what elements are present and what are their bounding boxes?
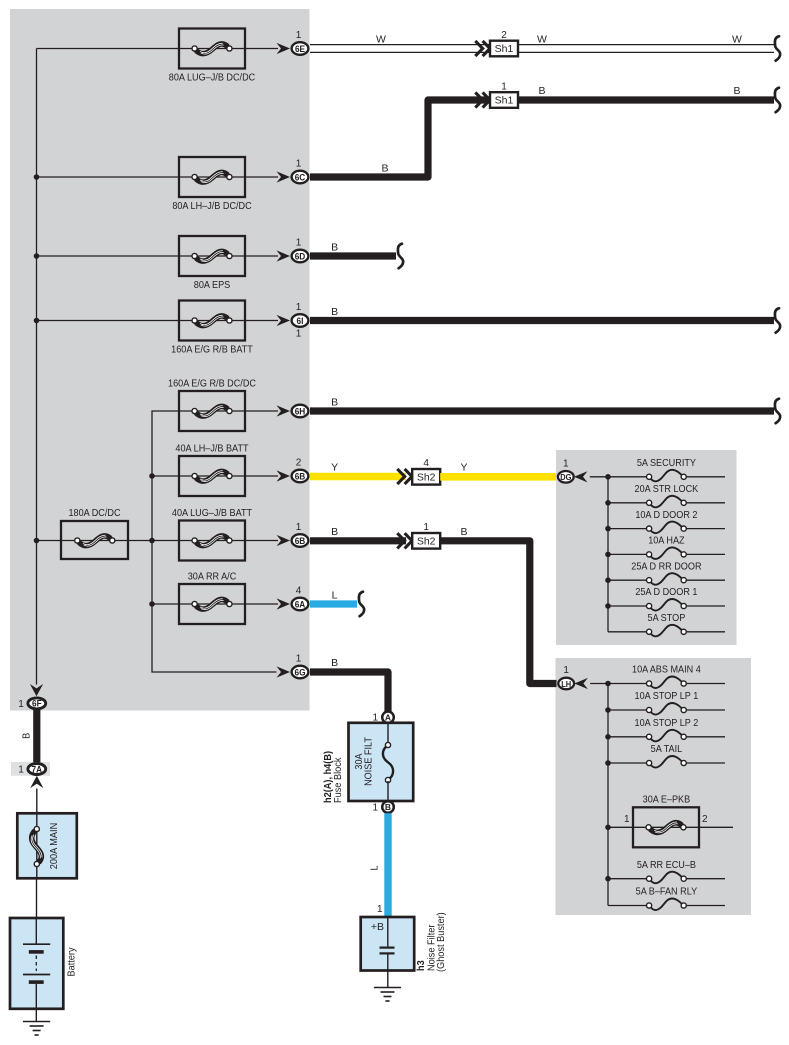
arrow into connector 6H [277, 405, 291, 416]
fuse bus in LH panel [607, 684, 609, 906]
wire to fusible link 80A LUG–J/B DC/DC [37, 48, 180, 50]
shield junction Sh1 pin 1 [490, 81, 518, 107]
connector 6B [292, 534, 309, 547]
svg-text:6A: 6A [295, 599, 306, 609]
svg-text:1: 1 [624, 814, 630, 825]
fuse block NOISE FILT box [349, 723, 414, 801]
svg-text:B: B [460, 526, 467, 538]
svg-text:160A E/G R/B DC/DC: 160A E/G R/B DC/DC [168, 378, 256, 390]
wire L from 6A [310, 600, 357, 607]
fusible link 80A LH–J/B DC/DC [172, 157, 251, 212]
svg-text:25A D RR DOOR: 25A D RR DOOR [631, 561, 701, 573]
arrow into connector DG [574, 471, 588, 482]
svg-text:B: B [21, 732, 33, 739]
connector 6H [292, 405, 309, 418]
break curl on 6H wire [775, 399, 780, 424]
shield junction Sh2 pin 1 [412, 522, 440, 548]
connector 7A [28, 764, 46, 775]
junction node at 10A HAZ [605, 552, 611, 558]
connector 6C [292, 171, 309, 184]
arrow into connector 6B [277, 470, 291, 481]
svg-text:30A RR A/C: 30A RR A/C [188, 571, 237, 583]
svg-text:Sh1: Sh1 [495, 95, 514, 107]
svg-text:7A: 7A [32, 764, 43, 774]
svg-text:1: 1 [296, 159, 302, 170]
svg-text:Sh2: Sh2 [417, 535, 436, 547]
gray tab behind 7A label [11, 762, 50, 776]
svg-text:B: B [538, 85, 545, 97]
fuse 5A STOP [608, 612, 725, 636]
svg-text:1: 1 [296, 302, 302, 313]
svg-text:1: 1 [296, 329, 302, 340]
junction node on main bus at 160A E/G R/B BATT [34, 318, 40, 324]
svg-text:L: L [369, 865, 381, 871]
svg-text:5A STOP: 5A STOP [648, 612, 686, 624]
svg-text:10A STOP LP 2: 10A STOP LP 2 [635, 717, 699, 729]
svg-text:6D: 6D [295, 251, 306, 261]
svg-text:L: L [332, 590, 338, 602]
wire from 40A LH–J/B BATT to connector [245, 475, 278, 477]
break curl on W wire [775, 36, 780, 61]
shield junction Sh2 pin 4 [412, 458, 440, 484]
wire from 30A RR A/C to connector [245, 603, 278, 605]
junction node at 10A STOP LP 1 [605, 707, 611, 713]
svg-text:80A EPS: 80A EPS [194, 279, 231, 291]
right fuse panel (DG) gray background [556, 450, 737, 645]
fuse bus in DG panel [607, 477, 609, 632]
svg-text:6E: 6E [295, 43, 305, 53]
svg-text:LH: LH [561, 679, 571, 689]
wire B from Sh2 to LH [440, 541, 556, 684]
svg-text:1: 1 [296, 30, 302, 41]
ground below battery [23, 1021, 50, 1023]
fusible link 80A EPS [179, 236, 245, 291]
svg-text:(Ghost Buster): (Ghost Buster) [436, 912, 448, 972]
junction node at 5A TAIL [605, 760, 611, 766]
svg-text:6F: 6F [32, 698, 42, 708]
svg-text:B: B [331, 242, 338, 254]
arrow into connector LH [574, 678, 588, 689]
junction node at 25A D DOOR 1 [605, 603, 611, 609]
wire B from 6B pin 1 to Sh2 [310, 537, 406, 544]
wire from 80A EPS to connector [245, 255, 278, 257]
junction node on sub bus at 40A LH–J/B BATT [149, 473, 155, 479]
svg-text:B: B [331, 657, 338, 669]
connector 6I [292, 314, 309, 327]
connector 6E [292, 42, 309, 55]
svg-text:6B: 6B [295, 535, 306, 545]
svg-text:1: 1 [563, 459, 569, 470]
wire W from 6E (double line) [310, 44, 490, 46]
fuse 10A HAZ [608, 535, 725, 559]
wire B from Sh1 to right [518, 96, 774, 103]
svg-text:80A LH–J/B DC/DC: 80A LH–J/B DC/DC [172, 200, 251, 212]
svg-text:1: 1 [18, 699, 24, 710]
svg-text:6B: 6B [295, 471, 306, 481]
junction node at 25A D RR DOOR [605, 577, 611, 583]
junction node at 5A RR ECU–B [605, 876, 611, 882]
junction node on main bus at 80A LH–J/B DC/DC [34, 174, 40, 180]
svg-text:W: W [376, 34, 386, 46]
svg-text:B: B [331, 306, 338, 318]
fusible link 80A LUG–J/B DC/DC [169, 29, 255, 84]
wire 180A DC/DC to sub bus [128, 540, 152, 542]
arrow into connector 6E [277, 43, 291, 54]
noise filter (ghost buster) box [361, 917, 415, 987]
fuse 10A STOP LP 2 [608, 717, 725, 741]
wire to fusible link 40A LUG–J/B BATT [152, 540, 179, 542]
right fuse panel (LH) gray background [556, 658, 752, 915]
junction node on sub bus at 40A LUG–J/B BATT [149, 538, 155, 544]
arrow into connector 6B [277, 535, 291, 546]
svg-text:40A LUG–J/B BATT: 40A LUG–J/B BATT [172, 507, 252, 519]
svg-text:Sh1: Sh1 [495, 43, 514, 55]
fusible link 200A MAIN box [17, 813, 77, 878]
fuse 10A D DOOR 2 [608, 509, 725, 533]
svg-text:1: 1 [501, 81, 507, 92]
wire to fusible link 80A EPS [37, 255, 180, 257]
connector 6F [28, 698, 46, 709]
wire to fusible link 30A RR A/C [152, 603, 179, 605]
svg-text:160A E/G R/B BATT: 160A E/G R/B BATT [171, 344, 253, 356]
svg-text:4: 4 [423, 458, 429, 469]
fuse 5A B–FAN RLY [608, 886, 725, 910]
wire to fusible link 80A LH–J/B DC/DC [37, 176, 180, 178]
connector LH [558, 678, 574, 690]
junction node on sub bus at 30A RR A/C [149, 601, 155, 607]
wire B from 6D [310, 252, 396, 259]
chevrons to Sh2 on B wire [397, 533, 404, 548]
arrow into connector 6F [30, 684, 43, 696]
break curl on 6D wire [398, 244, 403, 269]
fuse 25A D RR DOOR [608, 561, 725, 585]
svg-text:Battery: Battery [66, 947, 78, 976]
wire from 160A E/G R/B BATT to connector [245, 320, 278, 322]
svg-text:1: 1 [377, 904, 383, 915]
svg-text:1: 1 [296, 238, 302, 249]
fuse 5A RR ECU–B [608, 859, 725, 883]
junction node on main bus at 80A EPS [34, 253, 40, 259]
svg-text:B: B [331, 526, 338, 538]
svg-text:DG: DG [560, 473, 571, 483]
main bus wire from battery feed [36, 49, 38, 685]
wire from 160A E/G R/B DC/DC to connector [245, 410, 278, 412]
wire main bus to 180A DC/DC [37, 540, 62, 542]
fuse 20A STR LOCK [608, 483, 725, 507]
arrow into connector 6I [277, 315, 291, 326]
svg-text:W: W [537, 34, 547, 46]
svg-text:2: 2 [702, 814, 708, 825]
svg-text:1: 1 [296, 522, 302, 533]
svg-text:B: B [381, 163, 388, 175]
wire to fusible link 160A E/G R/B BATT [37, 320, 180, 322]
svg-text:B: B [385, 802, 391, 812]
wire Y from 6B pin 2 to Sh2 [310, 473, 406, 481]
fusible link 30A E–PKB [608, 794, 733, 847]
svg-text:+B: +B [371, 921, 384, 933]
fusible link 160A E/G R/B DC/DC [168, 378, 256, 431]
svg-text:1: 1 [18, 765, 24, 776]
svg-text:10A HAZ: 10A HAZ [648, 535, 684, 547]
pin circle A of fuse block [382, 712, 394, 724]
fuse 10A STOP LP 1 [608, 691, 725, 715]
svg-text:10A D DOOR 2: 10A D DOOR 2 [635, 509, 697, 521]
svg-text:5A B–FAN RLY: 5A B–FAN RLY [636, 886, 698, 898]
junction block main gray panel [10, 9, 310, 711]
connector 6G [292, 666, 309, 679]
shield junction Sh1 pin 2 [490, 30, 518, 56]
svg-text:6H: 6H [295, 406, 306, 416]
svg-text:A: A [385, 713, 391, 723]
fuse 10A ABS MAIN 4 [608, 664, 725, 688]
fusible link 40A LH–J/B BATT [175, 443, 248, 496]
fuse 5A TAIL [608, 744, 725, 768]
svg-text:30A E–PKB: 30A E–PKB [643, 794, 691, 806]
svg-text:1: 1 [423, 522, 429, 533]
svg-text:Sh2: Sh2 [417, 471, 436, 483]
break curl on 6I wire [775, 308, 780, 333]
junction node at 10A D DOOR 2 [605, 526, 611, 532]
wire B from 6G to fuse block A [310, 672, 388, 712]
junction node at 20A STR LOCK [605, 500, 611, 506]
svg-text:2: 2 [501, 30, 507, 41]
svg-text:4: 4 [296, 586, 302, 597]
fuse 5A SECURITY [608, 457, 725, 481]
svg-text:200A MAIN: 200A MAIN [48, 823, 60, 869]
break curl on 6A wire [359, 592, 364, 617]
svg-text:5A TAIL: 5A TAIL [651, 744, 683, 756]
pin circle B of fuse block [382, 801, 394, 813]
arrow into connector 6A [277, 598, 291, 609]
wire fuse bus to DG [590, 476, 608, 478]
fusible link 180A DC/DC [61, 508, 128, 559]
junction node at 5A SECURITY [605, 474, 611, 480]
svg-text:NOISE FILT: NOISE FILT [363, 737, 375, 786]
svg-text:10A ABS MAIN 4: 10A ABS MAIN 4 [632, 664, 701, 676]
wire B from 6F to 7A [33, 710, 40, 762]
wire fuse bus to LH [590, 683, 608, 685]
svg-text:6G: 6G [294, 667, 305, 677]
connector 6B [292, 470, 309, 483]
junction node at 30A E–PKB [605, 825, 611, 831]
svg-text:W: W [732, 34, 742, 46]
wire from 40A LUG–J/B BATT to connector [245, 540, 278, 542]
junction node at 10A ABS MAIN 4 [605, 681, 611, 687]
svg-text:1: 1 [372, 802, 378, 813]
svg-text:Y: Y [460, 462, 467, 474]
chevrons to Sh1 on B wire [475, 92, 482, 107]
wire to fusible link 40A LH–J/B BATT [152, 475, 179, 477]
svg-text:B: B [331, 397, 338, 409]
svg-text:6C: 6C [295, 172, 306, 182]
svg-text:5A SECURITY: 5A SECURITY [637, 457, 697, 469]
wire 200A MAIN to battery [36, 878, 38, 918]
fusible link 30A RR A/C [179, 571, 245, 624]
wire L fuse block to noise filter [384, 813, 391, 917]
svg-text:2: 2 [296, 458, 302, 469]
battery [10, 918, 63, 1022]
svg-text:5A RR ECU–B: 5A RR ECU–B [637, 859, 696, 871]
connector 6A [292, 598, 309, 611]
svg-text:20A STR LOCK: 20A STR LOCK [635, 483, 699, 495]
connector DG [558, 471, 574, 483]
svg-text:25A D DOOR 1: 25A D DOOR 1 [635, 587, 697, 599]
wire 200A MAIN to 7A [36, 789, 38, 826]
svg-text:10A STOP LP 1: 10A STOP LP 1 [635, 691, 699, 703]
wire B from 6H [310, 407, 774, 414]
arrow into connector 6C [277, 171, 291, 182]
svg-text:6I: 6I [297, 315, 304, 325]
wire B from 6C to Sh1 [310, 100, 490, 177]
svg-text:180A DC/DC: 180A DC/DC [68, 508, 120, 520]
fuse 25A D DOOR 1 [608, 587, 725, 611]
junction node at 10A STOP LP 2 [605, 734, 611, 740]
wire Y from Sh2 to DG [440, 473, 556, 481]
connector 6D [292, 250, 309, 263]
wire from 80A LH–J/B DC/DC to connector [245, 176, 278, 178]
svg-text:80A LUG–J/B DC/DC: 80A LUG–J/B DC/DC [169, 72, 255, 84]
sub bus wire [152, 411, 277, 672]
wire from 80A LUG–J/B DC/DC to connector [245, 48, 278, 50]
wire sub bus to connector 6G [277, 666, 291, 677]
fusible link 160A E/G R/B BATT [171, 301, 253, 356]
ground below noise filter [374, 987, 401, 989]
fusible link 40A LUG–J/B BATT [172, 507, 252, 560]
chevrons to Sh1 on W wire [475, 41, 482, 56]
svg-text:Fuse Block: Fuse Block [332, 758, 344, 803]
arrow into connector 6D [277, 250, 291, 261]
arrow up into connector 7A [30, 776, 43, 788]
svg-text:1: 1 [563, 665, 569, 676]
chevrons to Sh2 on Y wire [397, 469, 404, 484]
junction node on main bus at 180A DC/DC [34, 538, 40, 544]
svg-text:1: 1 [296, 654, 302, 665]
svg-text:Y: Y [331, 462, 338, 474]
break curl on B wire [775, 88, 780, 113]
svg-text:40A LH–J/B BATT: 40A LH–J/B BATT [175, 443, 248, 455]
wire B from 6I [310, 317, 774, 324]
svg-text:B: B [733, 85, 740, 97]
